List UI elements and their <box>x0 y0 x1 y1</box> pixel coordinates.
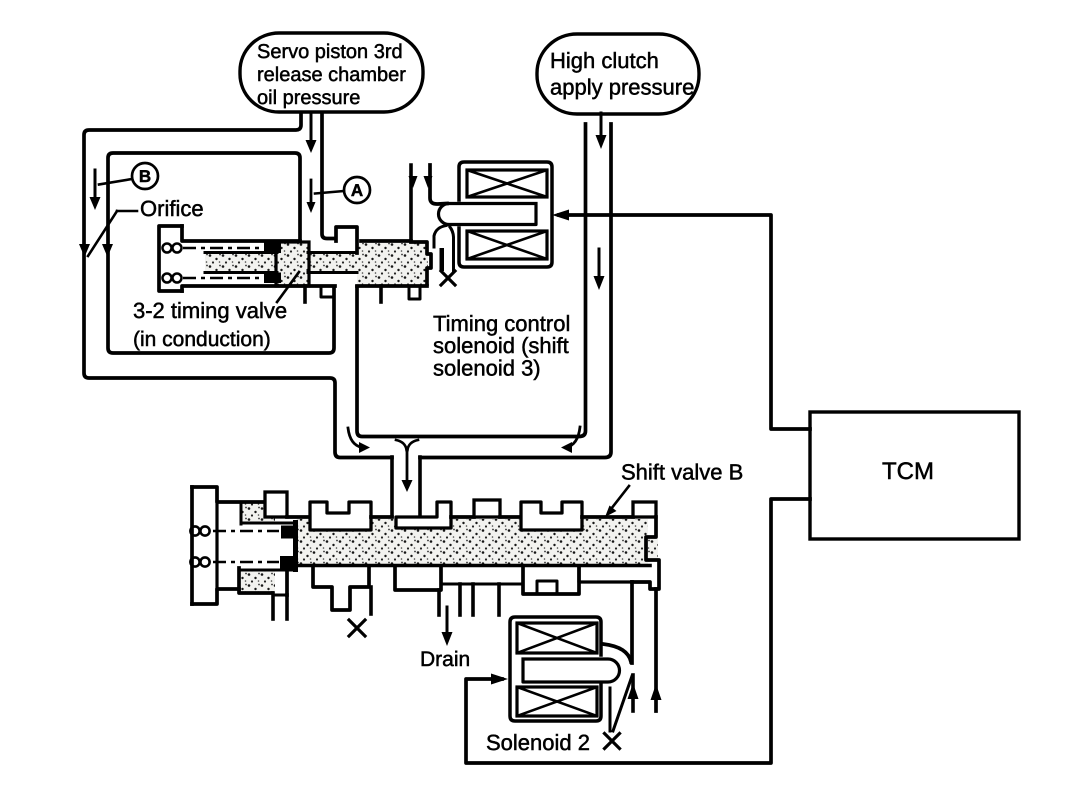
svg-text:B: B <box>139 167 151 186</box>
svg-text:solenoid (shift: solenoid (shift <box>433 333 569 358</box>
svg-text:Drain: Drain <box>420 648 470 671</box>
svg-text:(in conduction): (in conduction) <box>133 328 271 351</box>
svg-text:Shift valve B: Shift valve B <box>621 460 743 485</box>
svg-text:apply pressure: apply pressure <box>550 75 694 100</box>
svg-text:Solenoid 2: Solenoid 2 <box>486 730 590 755</box>
svg-text:High clutch: High clutch <box>550 48 659 73</box>
svg-text:Orifice: Orifice <box>140 196 204 221</box>
svg-text:oil pressure: oil pressure <box>257 87 360 109</box>
svg-text:Servo piston 3rd: Servo piston 3rd <box>257 41 403 63</box>
svg-text:3-2 timing valve: 3-2 timing valve <box>133 298 287 323</box>
svg-text:A: A <box>351 181 363 200</box>
svg-text:release chamber: release chamber <box>257 64 406 86</box>
svg-text:solenoid 3): solenoid 3) <box>433 356 541 381</box>
svg-text:TCM: TCM <box>882 458 934 485</box>
